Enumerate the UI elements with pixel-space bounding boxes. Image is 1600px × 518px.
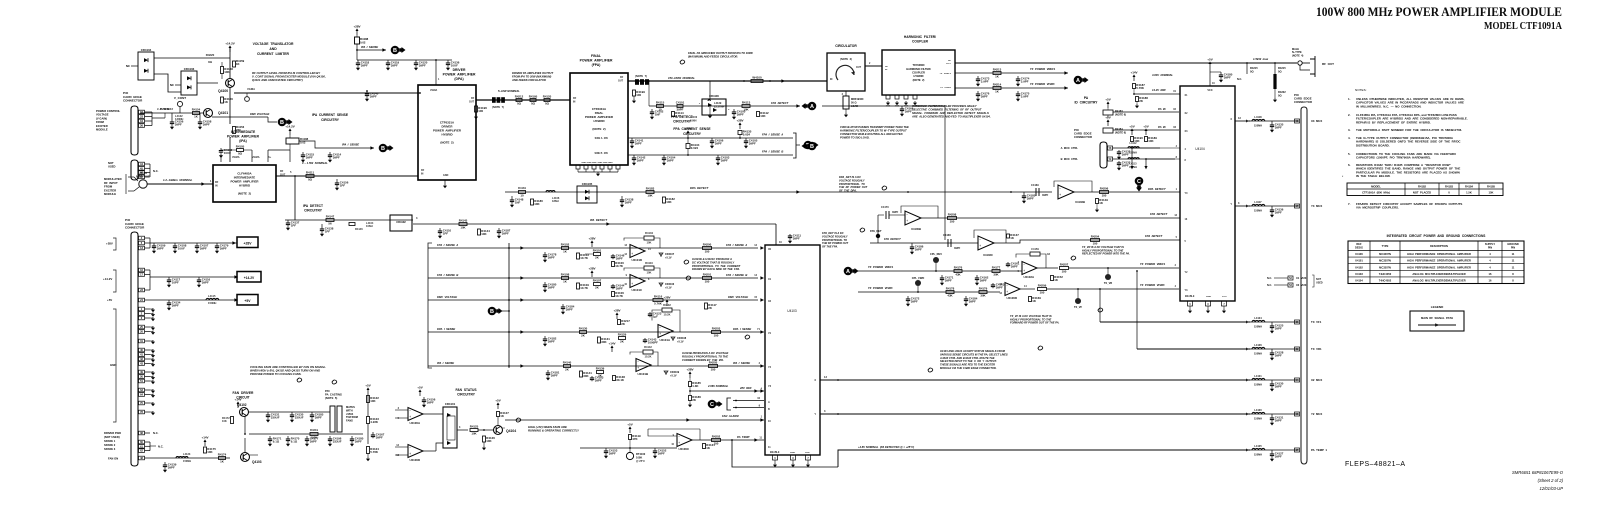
svg-text:MC3307N: MC3307N	[1379, 265, 1391, 269]
svg-text:−: −	[678, 435, 680, 439]
svg-text:OF THE FPA.: OF THE FPA.	[822, 245, 838, 249]
svg-text:DESCRIPTION: DESCRIPTION	[1430, 244, 1448, 248]
svg-text:L4121: L4121	[1254, 374, 1262, 378]
svg-text:39PF: 39PF	[1275, 210, 1282, 214]
svg-text:R4202: R4202	[712, 435, 721, 439]
svg-text:+5V: +5V	[365, 383, 370, 387]
svg-text:HARMONIC FILTER/COUPLER TO W–T: HARMONIC FILTER/COUPLER TO W–TYPE OUTPUT	[840, 129, 907, 133]
svg-text:+: +	[659, 332, 661, 336]
svg-text:+5V: +5V	[495, 398, 500, 402]
svg-text:FPA I SENSE A: FPA I SENSE A	[437, 243, 458, 247]
svg-text:+28V: +28V	[736, 118, 743, 122]
svg-text:N.C.: N.C.	[158, 445, 164, 449]
svg-text:+: +	[409, 415, 411, 419]
svg-text:FPA I SENSE B: FPA I SENSE B	[437, 273, 458, 277]
svg-text:10.7K: 10.7K	[580, 256, 589, 260]
svg-text:SIDE B 28V: SIDE B 28V	[594, 152, 608, 155]
svg-text:22.57NH: 22.57NH	[714, 104, 724, 108]
svg-text:U4101B PRODUCES A DC VOLTAGE: U4101B PRODUCES A DC VOLTAGE	[682, 351, 728, 355]
svg-text:30K: 30K	[993, 273, 999, 277]
svg-text:0Ω: 0Ω	[545, 102, 550, 106]
svg-text:3.: 3.	[1348, 128, 1351, 132]
svg-text:R4115: R4115	[656, 101, 665, 105]
svg-text:10K: 10K	[647, 270, 652, 274]
svg-text:Q4101: Q4101	[218, 111, 228, 115]
svg-text:CURRENT LIMITER: CURRENT LIMITER	[257, 52, 290, 56]
svg-text:IN: IN	[215, 184, 218, 187]
svg-text:0.02: 0.02	[360, 41, 366, 45]
svg-text:R4110: R4110	[645, 261, 653, 265]
svg-text:FORWARD RF POWER OUT OF THE PA: FORWARD RF POWER OUT OF THE PA.	[1010, 321, 1060, 325]
svg-text:R4132: R4132	[663, 303, 671, 307]
svg-text:39PF: 39PF	[637, 158, 644, 162]
svg-text:39PF: 39PF	[502, 231, 509, 235]
svg-text:DC VOLTAGE THAT IS ROUGHLY: DC VOLTAGE THAT IS ROUGHLY	[692, 260, 734, 264]
svg-text:(NOTE 2): (NOTE 2)	[440, 141, 453, 145]
svg-text:VOLTAGE: VOLTAGE	[96, 113, 109, 117]
svg-text:TX VR1: TX VR1	[1311, 347, 1322, 351]
svg-text:−: −	[631, 276, 633, 280]
svg-text:CTF1091A (800 MHz): CTF1091A (800 MHz)	[1362, 191, 1390, 195]
svg-text:IPA I SENSE: IPA I SENSE	[733, 361, 750, 365]
svg-text:COUPLER: COUPLER	[912, 71, 925, 75]
svg-text:Q4101 AND ASSOCIATED CIRCUITRY: Q4101 AND ASSOCIATED CIRCUITRY)	[252, 78, 303, 82]
svg-text:39PF: 39PF	[658, 451, 665, 455]
svg-text:REPAIR IS BY REPLACEMENT OF: REPAIR IS BY REPLACEMENT OF ENTIRE HYBRI…	[1356, 120, 1431, 124]
svg-text:39PF: 39PF	[1027, 196, 1034, 200]
svg-text:R4215: R4215	[1278, 66, 1286, 70]
svg-text:39PF: 39PF	[616, 256, 623, 260]
svg-text:@ 25°C: @ 25°C	[636, 459, 645, 463]
svg-text:R4213: R4213	[993, 68, 1002, 72]
svg-text:U4101D: U4101D	[631, 258, 642, 262]
svg-text:39PF: 39PF	[315, 415, 322, 419]
svg-text:HARMONIC FILTER/: HARMONIC FILTER/	[906, 67, 931, 71]
svg-text:U4102C: U4102C	[983, 253, 993, 257]
svg-text:L4129: L4129	[714, 101, 722, 105]
svg-text:10.2K: 10.2K	[645, 355, 652, 359]
svg-text:THE RF POWER OUT: THE RF POWER OUT	[839, 185, 868, 189]
svg-text:39PF: 39PF	[715, 141, 722, 145]
svg-text:DRAWN BY EACH SIDE OF THE FPA: DRAWN BY EACH SIDE OF THE FPA.	[692, 267, 740, 271]
svg-text:VOLTAGE TRANSLATOR: VOLTAGE TRANSLATOR	[253, 42, 294, 46]
svg-text:N.C.: N.C.	[153, 431, 159, 435]
svg-text:R4130: R4130	[579, 327, 588, 331]
svg-text:R4177: R4177	[992, 266, 1001, 270]
svg-text:R4111: R4111	[306, 171, 315, 175]
svg-text:150NH: 150NH	[208, 301, 216, 305]
svg-text:OUT: OUT	[856, 66, 862, 69]
svg-text:9.1Ω: 9.1Ω	[291, 439, 298, 443]
svg-text:A: A	[846, 269, 850, 275]
svg-text:30K: 30K	[601, 340, 607, 344]
svg-text:39PF: 39PF	[969, 299, 976, 303]
svg-text:R4142: R4142	[644, 345, 652, 349]
svg-text:0Ω: 0Ω	[208, 60, 213, 64]
svg-text:DISTRIBUTION BOARD.: DISTRIBUTION BOARD.	[1356, 143, 1390, 147]
svg-text:39PF: 39PF	[1042, 193, 1049, 197]
svg-text:R4176: R4176	[954, 266, 963, 270]
svg-text:+: +	[1006, 290, 1008, 294]
svg-text:CAPACITORS (1000PF, P/O TRN: CAPACITORS (1000PF, P/O TRN7908A HARDWAR…	[1356, 156, 1431, 160]
svg-text:100: 100	[705, 250, 710, 254]
svg-text:PA ID: PA ID	[1158, 125, 1166, 129]
svg-text:1NF: 1NF	[515, 200, 521, 204]
svg-text:ENABLE: ENABLE	[1185, 295, 1195, 298]
svg-text:FPA I SENSE A: FPA I SENSE A	[762, 133, 783, 137]
svg-text:U4102: U4102	[1355, 265, 1363, 269]
svg-text:RF OUT: RF OUT	[1322, 62, 1334, 66]
svg-text:1PF: 1PF	[340, 183, 346, 187]
svg-text:R4204: R4204	[1091, 235, 1100, 239]
svg-text:CIRCULATOR: CIRCULATOR	[835, 44, 857, 48]
svg-text:TYPE: TYPE	[1382, 244, 1389, 248]
svg-text:R4206: R4206	[1100, 187, 1109, 191]
svg-text:4.: 4.	[1348, 136, 1351, 140]
svg-text:IN THE TABLE BELOW.: IN THE TABLE BELOW.	[1356, 174, 1391, 178]
svg-text:10K: 10K	[370, 399, 376, 403]
svg-text:28V REF: 28V REF	[739, 386, 752, 390]
svg-text:(NOTE 6): (NOTE 6)	[1115, 130, 1126, 134]
svg-text:TX_VR: TX_VR	[1104, 281, 1112, 285]
svg-text:30K: 30K	[980, 294, 986, 298]
svg-text:U4101C: U4101C	[631, 288, 643, 292]
svg-text:39PF: 39PF	[220, 246, 227, 250]
svg-text:CIRCUITRY: CIRCUITRY	[321, 118, 340, 122]
svg-text:C4170: C4170	[881, 205, 889, 209]
svg-text:R4107: R4107	[593, 279, 602, 283]
svg-text:R4219: R4219	[310, 428, 318, 432]
svg-text:Y2 MUX: Y2 MUX	[1311, 412, 1322, 416]
svg-text:OF THE DPA.: OF THE DPA.	[839, 189, 857, 193]
svg-text:39PF: 39PF	[1275, 454, 1282, 458]
svg-text:IN: IN	[830, 78, 833, 81]
svg-text:AND: AND	[269, 47, 277, 51]
svg-text:N.C.: N.C.	[1267, 277, 1272, 280]
svg-text:+14V: +14V	[1130, 70, 1137, 74]
svg-text:39PF: 39PF	[203, 122, 210, 126]
svg-text:0.024: 0.024	[691, 146, 699, 150]
svg-text:R4195: R4195	[529, 95, 538, 99]
svg-text:−: −	[631, 246, 633, 250]
svg-text:L4124: L4124	[1254, 316, 1262, 320]
svg-text:FAN ALARM: FAN ALARM	[722, 414, 739, 418]
svg-text:L4120: L4120	[1254, 408, 1262, 412]
svg-text:100W 800 MHz POWER AMPLIFIER M: 100W 800 MHz POWER AMPLIFIER MODULE	[1316, 4, 1562, 19]
svg-text:SPARE 1: SPARE 1	[104, 439, 116, 443]
svg-text:18NH: 18NH	[552, 199, 559, 203]
svg-text:43K: 43K	[947, 294, 953, 298]
svg-text:39PF: 39PF	[548, 285, 555, 289]
svg-text:R4116: R4116	[654, 295, 663, 299]
svg-text:10K: 10K	[486, 439, 492, 443]
svg-text:39PF: 39PF	[905, 109, 912, 113]
svg-text:+5V: +5V	[1105, 115, 1110, 119]
svg-text:DRIVER PA AMPLIFIES OUTPUT: DRIVER PA AMPLIFIES OUTPUT	[512, 71, 553, 75]
svg-text:100: 100	[711, 368, 716, 372]
svg-text:CONNECTOR: CONNECTOR	[125, 226, 145, 230]
svg-text:+: +	[637, 366, 639, 370]
svg-text:VGMA: VGMA	[232, 156, 240, 159]
svg-text:PROVIDE POWER TO COOLING FANS.: PROVIDE POWER TO COOLING FANS.	[250, 372, 302, 376]
svg-text:30.1K: 30.1K	[616, 378, 625, 382]
svg-text:+: +	[678, 441, 680, 445]
svg-text:C: C	[1137, 179, 1141, 185]
svg-text:39PF: 39PF	[361, 63, 368, 67]
svg-text:FAN DRIVER: FAN DRIVER	[233, 391, 255, 395]
svg-text:39PF: 39PF	[1122, 163, 1129, 167]
svg-text:FPA DETECT: FPA DETECT	[1150, 212, 1168, 216]
svg-text:74HC4052: 74HC4052	[1379, 279, 1392, 283]
svg-text:39PF: 39PF	[310, 439, 317, 443]
svg-text:+28V: +28V	[588, 236, 595, 240]
svg-text:+28V: +28V	[243, 242, 252, 246]
svg-text:FPA_DET IS A DC: FPA_DET IS A DC	[822, 231, 844, 235]
svg-text:MINI–UHF: MINI–UHF	[136, 174, 150, 178]
svg-text:(MAXIMUM) AND FEEDS CIRCULATOR: (MAXIMUM) AND FEEDS CIRCULATOR.	[688, 55, 738, 59]
svg-text:R4201: R4201	[703, 273, 712, 277]
svg-text:PROPORTIONAL TO: PROPORTIONAL TO	[822, 238, 847, 242]
svg-text:39PF: 39PF	[892, 210, 899, 214]
svg-text:NOTES:: NOTES:	[1355, 88, 1367, 92]
svg-text:150NH: 150NH	[1254, 209, 1262, 213]
svg-text:VARIOUS SENSE CIRCUITS IN THE: VARIOUS SENSE CIRCUITS IN THE PA; SELECT…	[940, 352, 1008, 356]
svg-text:1μF: 1μF	[653, 314, 658, 318]
svg-text:39PF: 39PF	[551, 373, 558, 377]
svg-text:MATES: MATES	[346, 405, 355, 409]
svg-text:DMV VOLTAGE: DMV VOLTAGE	[728, 295, 748, 299]
svg-text:U4103: U4103	[787, 309, 797, 313]
svg-text:0Ω: 0Ω	[1250, 69, 1254, 73]
svg-text:ROUGHLY PROPORTIONAL TO THE: ROUGHLY PROPORTIONAL TO THE	[682, 354, 728, 358]
svg-text:CONNECTOR: CONNECTOR	[1074, 135, 1092, 139]
svg-text:OUT: OUT	[469, 100, 475, 103]
svg-text:U4100D: U4100D	[409, 458, 420, 462]
svg-text:39PF: 39PF	[609, 451, 616, 455]
svg-text:10K: 10K	[666, 200, 672, 204]
svg-text:5.76K: 5.76K	[654, 302, 663, 306]
svg-text:+5.1V: +5.1V	[677, 340, 684, 343]
svg-text:TX VREF1: TX VREF1	[939, 73, 951, 75]
svg-text:PROPORTIONAL TO: PROPORTIONAL TO	[839, 182, 865, 186]
svg-text:R4200: R4200	[703, 243, 712, 247]
svg-text:39PF: 39PF	[1275, 418, 1282, 422]
svg-text:(NOTE 2): (NOTE 2)	[913, 78, 925, 82]
svg-text:A+: A+	[268, 156, 272, 159]
svg-text:N.C.: N.C.	[1267, 284, 1272, 287]
svg-text:10.7K: 10.7K	[580, 286, 589, 290]
svg-text:TX POWER VFWD: TX POWER VFWD	[868, 286, 893, 290]
svg-text:39PF: 39PF	[202, 280, 209, 284]
svg-text:(NOTE 3): (NOTE 3)	[840, 57, 852, 61]
svg-text:100: 100	[705, 280, 710, 284]
svg-text:+5V: +5V	[627, 422, 632, 426]
svg-text:10K: 10K	[760, 114, 766, 118]
svg-text:MC3307N: MC3307N	[1379, 252, 1391, 256]
svg-text:N.C.: N.C.	[153, 169, 159, 173]
svg-text:39PF: 39PF	[980, 278, 987, 282]
svg-text:TFF62800: TFF62800	[913, 63, 926, 67]
svg-text:A: A	[1076, 78, 1080, 84]
svg-text:39PF: 39PF	[1275, 384, 1282, 388]
svg-text:EXCITER: EXCITER	[96, 124, 108, 128]
svg-text:USED: USED	[108, 165, 116, 169]
svg-text:150NH: 150NH	[1254, 453, 1262, 457]
svg-text:CIRCULATOR PASSES TRANSMIT POW: CIRCULATOR PASSES TRANSMIT POWER THRU TH…	[840, 125, 909, 129]
svg-text:CONNECTOR: CONNECTOR	[1294, 100, 1312, 104]
svg-text:56: 56	[328, 222, 332, 226]
svg-text:R4214: R4214	[993, 83, 1002, 87]
svg-text:REFLECTED RF POWER INTO THE PA: REFLECTED RF POWER INTO THE PA.	[1082, 252, 1130, 256]
svg-text:+5.1V: +5.1V	[665, 286, 672, 289]
svg-text:FPA DETECT: FPA DETECT	[771, 101, 789, 105]
svg-text:DPA I SENSE: DPA I SENSE	[733, 327, 751, 331]
svg-text:100: 100	[714, 334, 719, 338]
svg-text:VIA MICROSTRIP COUPLERS.: VIA MICROSTRIP COUPLERS.	[1356, 206, 1399, 210]
svg-text:IPA I SENSE: IPA I SENSE	[342, 143, 359, 147]
svg-text:10NH: 10NH	[690, 119, 697, 122]
svg-text:X3 MUX: X3 MUX	[1311, 119, 1322, 123]
svg-text:1PF: 1PF	[291, 223, 297, 227]
svg-text:GND: GND	[1206, 296, 1211, 298]
svg-text:10K: 10K	[471, 432, 477, 436]
svg-text:R4139: R4139	[596, 367, 605, 371]
svg-text:PIN: PIN	[1488, 246, 1492, 250]
svg-text:74HC4052: 74HC4052	[1379, 272, 1392, 276]
svg-text:10NH: 10NH	[366, 224, 373, 228]
svg-text:14.2V REF: 14.2V REF	[1152, 88, 1166, 92]
svg-text:FROM IPA TO 20W (MAXIMUM): FROM IPA TO 20W (MAXIMUM)	[512, 75, 551, 79]
svg-text:39PF: 39PF	[172, 303, 179, 307]
svg-text:39PF: 39PF	[168, 465, 175, 469]
svg-text:5–10W NOMINAL: 5–10W NOMINAL	[498, 89, 520, 93]
svg-text:SUPPLY: SUPPLY	[1485, 242, 1495, 246]
svg-text:U4101B: U4101B	[637, 372, 648, 376]
svg-text:DPA I SENSE: DPA I SENSE	[437, 327, 455, 331]
svg-text:AND FEEDS CIRCULATOR: AND FEEDS CIRCULATOR	[511, 78, 546, 82]
svg-text:+14V: +14V	[608, 341, 615, 345]
svg-text:10UF: 10UF	[178, 246, 185, 250]
svg-text:1.: 1.	[1348, 97, 1351, 101]
svg-text:+5V: +5V	[244, 299, 251, 303]
svg-text:+28V: +28V	[684, 126, 691, 130]
svg-text:+5V: +5V	[1207, 57, 1212, 61]
svg-text:INTERMEDIATE: INTERMEDIATE	[231, 130, 256, 134]
svg-text:5.76K: 5.76K	[1136, 86, 1145, 90]
svg-text:100: 100	[636, 93, 641, 97]
svg-text:+14.2V: +14.2V	[285, 124, 295, 128]
svg-text:47K: 47K	[632, 437, 638, 441]
svg-text:R4220: R4220	[206, 53, 215, 57]
svg-text:+5V: +5V	[417, 385, 422, 389]
svg-text:HYBRID: HYBRID	[239, 184, 250, 188]
svg-text:(IPA): (IPA)	[239, 139, 246, 143]
svg-text:6.: 6.	[1348, 163, 1351, 167]
svg-text:DRIVER: DRIVER	[453, 68, 466, 72]
svg-text:2.66V NOMINAL: 2.66V NOMINAL	[707, 384, 729, 388]
svg-text:10K: 10K	[1134, 139, 1140, 143]
svg-text:A: A	[768, 401, 770, 404]
svg-text:GND: GND	[443, 174, 449, 177]
svg-text:CIRCUITRY: CIRCUITRY	[457, 393, 476, 397]
svg-text:CIRCUITRY: CIRCUITRY	[683, 132, 702, 136]
svg-text:POWER CONTROL: POWER CONTROL	[96, 109, 121, 113]
svg-text:POWER AMPLIFIER: POWER AMPLIFIER	[580, 59, 613, 63]
svg-text:39PF: 39PF	[355, 439, 362, 443]
svg-text:R4101: R4101	[593, 249, 602, 253]
svg-text:U4100C: U4100C	[678, 447, 690, 451]
svg-text:+14V: +14V	[201, 435, 208, 439]
svg-text:39PF: 39PF	[793, 236, 800, 240]
svg-text:−: −	[979, 238, 981, 242]
svg-text:R4183: R4183	[1445, 184, 1453, 188]
svg-text:HIGH PERFORMANCE OPERATIONAL: HIGH PERFORMANCE OPERATIONAL AMPLIFIER	[1407, 259, 1471, 263]
svg-text:POWER TO 50Ω LOAD.: POWER TO 50Ω LOAD.	[840, 136, 870, 140]
svg-text:(NOTE 7): (NOTE 7)	[635, 74, 647, 78]
svg-text:B MUX CTRL: B MUX CTRL	[1061, 157, 1079, 161]
svg-text:TX POWER VFWD: TX POWER VFWD	[1030, 82, 1055, 86]
svg-text:VCC: VCC	[1207, 89, 1212, 92]
svg-text:POWER AMPLIFIER: POWER AMPLIFIER	[443, 73, 476, 77]
svg-text:10.2K: 10.2K	[664, 313, 671, 317]
svg-text:TX POWER VREF1: TX POWER VREF1	[1030, 67, 1056, 71]
svg-text:150NH: 150NH	[1254, 352, 1262, 356]
svg-text:0Ω: 0Ω	[531, 102, 536, 106]
svg-text:12/01/03-UP: 12/01/03-UP	[1539, 486, 1563, 491]
svg-text:U4102B: U4102B	[1075, 200, 1085, 204]
svg-text:SELECTED INPUT TO THE X OR: SELECTED INPUT TO THE X OR Y OUTPUT.	[940, 359, 997, 363]
svg-text:+: +	[631, 282, 633, 286]
svg-text:GND: GND	[790, 452, 795, 454]
svg-text:RT4100: RT4100	[636, 452, 646, 456]
svg-text:330UF: 330UF	[295, 415, 304, 419]
svg-text:FPA DETECT: FPA DETECT	[1145, 234, 1163, 238]
svg-text:C4159: C4159	[1031, 247, 1039, 251]
svg-text:3.9PF: 3.9PF	[1021, 79, 1029, 83]
svg-text:C4101: C4101	[676, 101, 685, 105]
svg-text:U4101D & U4101C PRODUCE A: U4101D & U4101C PRODUCE A	[692, 257, 732, 261]
svg-text:VOLTAGE ROUGHLY: VOLTAGE ROUGHLY	[839, 178, 865, 182]
svg-text:IN: IN	[573, 100, 576, 103]
svg-text:+5.1V: +5.1V	[670, 374, 677, 377]
svg-text:0 – 1.5W NOMINAL: 0 – 1.5W NOMINAL	[302, 161, 328, 165]
svg-text:SELECTIVE COMBINED FILTERING: SELECTIVE COMBINED FILTERING OF RF OUTPU…	[912, 108, 982, 112]
svg-text:R4102: R4102	[561, 243, 570, 247]
svg-text:R4203: R4203	[712, 327, 721, 331]
svg-text:IPA I SENSE: IPA I SENSE	[361, 45, 378, 49]
svg-text:R4104: R4104	[645, 231, 653, 235]
svg-text:HYBRID: HYBRID	[593, 119, 604, 123]
svg-text:39PF: 39PF	[1275, 353, 1282, 357]
svg-text:MODULE VIA THE CARD EDGE CONNE: MODULE VIA THE CARD EDGE CONNECTOR.	[940, 366, 997, 370]
svg-text:X2 MUX: X2 MUX	[1296, 283, 1307, 287]
svg-text:39PF: 39PF	[1275, 326, 1282, 330]
svg-text:150NH: 150NH	[1254, 417, 1262, 421]
svg-text:DPA DETECT: DPA DETECT	[1148, 187, 1166, 191]
svg-text:−: −	[1059, 187, 1061, 191]
svg-text:1PF: 1PF	[443, 231, 449, 235]
svg-text:B: B	[490, 309, 494, 315]
svg-text:5.: 5.	[1348, 152, 1351, 156]
svg-text:10K: 10K	[534, 202, 540, 206]
svg-text:(V GAIN): (V GAIN)	[96, 116, 107, 120]
svg-text:R4183: R4183	[1115, 109, 1123, 113]
svg-text:39PF: 39PF	[157, 246, 164, 250]
svg-text:R4185: R4185	[1487, 184, 1495, 188]
svg-text:HARMONIC FILTER/: HARMONIC FILTER/	[904, 35, 936, 39]
svg-text:DMV VOLTAGE: DMV VOLTAGE	[250, 112, 270, 116]
svg-text:HYBRID: HYBRID	[914, 74, 924, 78]
